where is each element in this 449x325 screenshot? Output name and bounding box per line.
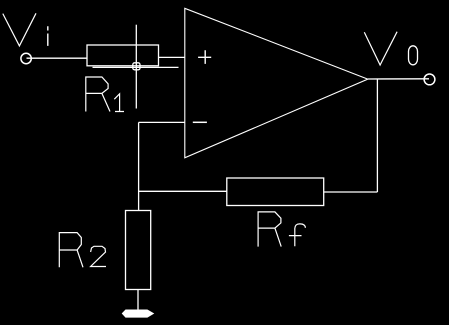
resistor R2 value label	[59, 233, 106, 268]
wire output node down to Rf	[376, 79, 378, 192]
resistor Rf	[227, 178, 324, 206]
ground	[123, 310, 153, 317]
resistor R1	[87, 45, 159, 66]
node V0 label	[364, 32, 417, 65]
wire node A to Rf	[139, 190, 227, 192]
resistor R2	[126, 211, 151, 290]
wire node A down to R2	[138, 122, 140, 210]
terminal Vi input port	[21, 53, 31, 63]
op-amp + input pin symbol	[198, 50, 211, 64]
wire op-amp output	[368, 78, 429, 80]
op-amp U1	[185, 8, 368, 158]
wire R2 to ground	[137, 290, 139, 310]
wire Rf to output node	[324, 191, 378, 193]
wire Vi to R1	[27, 57, 88, 59]
resistor R1 value label	[86, 77, 124, 112]
resistor Rf value label	[258, 212, 305, 247]
terminal V0 output port	[424, 74, 435, 85]
junction pad marker	[133, 63, 140, 70]
cursor crosshair	[93, 25, 179, 109]
wire R1 to op-amp + input	[159, 56, 185, 58]
node Vi label	[3, 13, 48, 46]
wire - input to node A	[139, 121, 185, 123]
op-amp - input pin symbol	[193, 121, 207, 123]
